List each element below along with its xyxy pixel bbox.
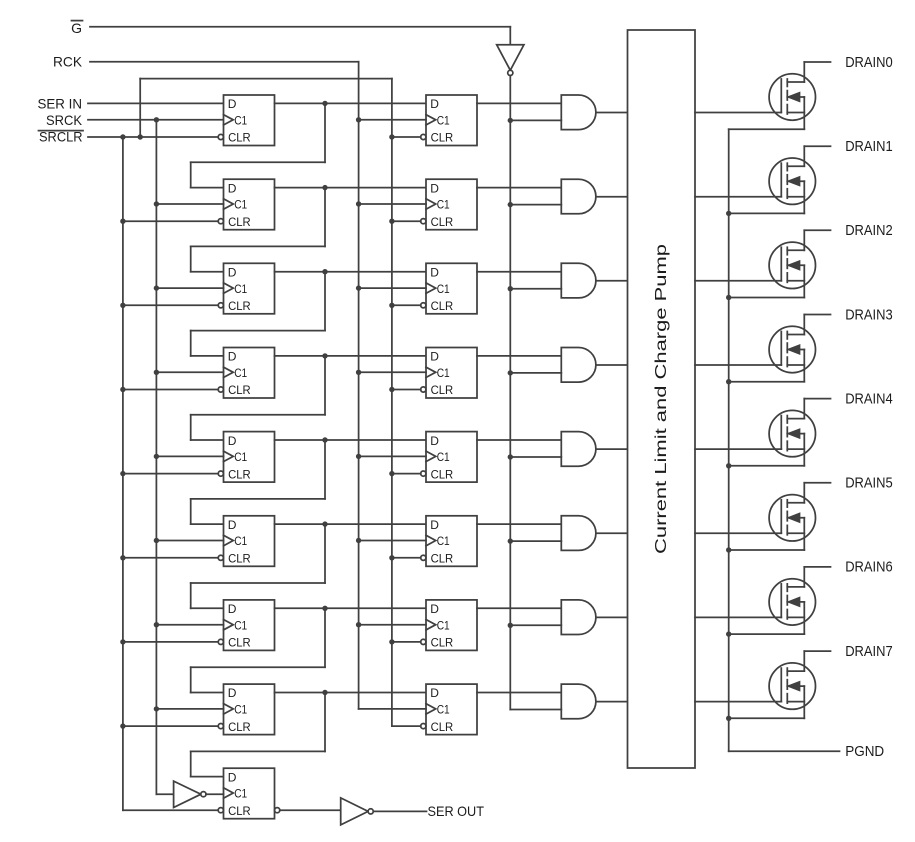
junction G-bar bus row 3	[508, 286, 513, 291]
wire to SER OUT label	[373, 810, 426, 812]
and gate A6	[561, 600, 596, 635]
junction SRCLR up-branch tap	[138, 134, 143, 139]
junction RCK bus row 1	[356, 117, 361, 122]
wire Q4 source to ground bus	[729, 465, 805, 467]
wire SRCLR up branch	[140, 79, 392, 137]
wire drain lead DRAIN4	[804, 398, 830, 400]
wire drain lead DRAIN7	[804, 650, 830, 652]
wire SRCK branch to U2 C1	[156, 203, 223, 205]
and gate A2	[561, 263, 596, 298]
wire SRCK bus vertical	[155, 120, 157, 794]
wire RCK bus vertical	[358, 62, 360, 709]
junction G-bar bus row 2	[508, 202, 513, 207]
svg-text:DRAIN1: DRAIN1	[845, 138, 893, 155]
flip-flop U9 (shift register stage 9)	[218, 768, 274, 819]
flip-flop U15 (storage register stage 6)	[421, 516, 477, 567]
wire SRCK branch to U3 C1	[156, 287, 223, 289]
wire Q2 wrap to U3 D	[191, 188, 325, 272]
wire Q1 wrap to U2 D	[191, 103, 325, 187]
flip-flop U5 (shift register stage 5)	[218, 432, 274, 483]
junction SRCLR bus row 7	[120, 639, 125, 644]
wire SRCLR branch to U17 CLR	[392, 725, 421, 727]
svg-text:SRCK: SRCK	[46, 112, 83, 128]
junction SRCLR right bus row 6	[389, 555, 394, 560]
wire G-bar branch to A2 input	[510, 288, 561, 290]
junction SRCLR bus row 4	[120, 387, 125, 392]
junction SRCK bus row 8	[154, 706, 159, 711]
junction SRCLR right bus row 5	[389, 471, 394, 476]
wire RCK branch to U16 C1	[359, 624, 426, 626]
junction SRCLR bus row 8	[120, 723, 125, 728]
wire U17 Q to AND gate A7	[477, 692, 561, 694]
svg-text:DRAIN5: DRAIN5	[845, 475, 893, 492]
junction SRCLR right bus row 2	[389, 219, 394, 224]
svg-text:DRAIN3: DRAIN3	[845, 306, 893, 323]
wire A2 output to current-limit block	[596, 280, 628, 282]
svg-text:C1: C1	[234, 703, 247, 717]
wire SRCK branch to U6 C1	[156, 540, 223, 542]
svg-text:C1: C1	[437, 534, 450, 548]
junction Q2 node	[322, 185, 327, 190]
wire Q3 source to ground bus	[729, 381, 805, 383]
junction Q1 node	[322, 101, 327, 106]
flip-flop U13 (storage register stage 4)	[421, 348, 477, 399]
wire gate drive to Q1	[695, 196, 781, 198]
and gate A5	[561, 516, 596, 551]
wire SRCLR branch to U4 CLR	[123, 389, 218, 391]
wire A4 output to current-limit block	[596, 448, 628, 450]
inverter U20 (SER OUT buffer)	[341, 798, 374, 825]
junction SRCK bus row 3	[154, 285, 159, 290]
wire gate drive to Q6	[695, 616, 781, 618]
flip-flop U8 (shift register stage 8)	[218, 684, 274, 735]
wire gate drive to Q3	[695, 364, 781, 366]
output bubble of U9	[275, 808, 280, 813]
and gate A4	[561, 432, 596, 467]
junction RCK bus row 2	[356, 201, 361, 206]
svg-text:C1: C1	[437, 198, 450, 212]
svg-text:CLR: CLR	[431, 552, 454, 566]
wire A1 output to current-limit block	[596, 196, 628, 198]
wire RCK branch to U15 C1	[359, 540, 426, 542]
wire U4 Q output to storage FF D	[275, 355, 427, 357]
transistor Q7 (power NMOS)	[769, 651, 815, 718]
svg-text:C1: C1	[234, 534, 247, 548]
svg-text:C1: C1	[437, 703, 450, 717]
net DRAIN5 label	[845, 475, 893, 492]
wire U9 to SER OUT inverter	[280, 809, 341, 811]
wire SER IN to FF1 D	[88, 102, 224, 104]
wire G-bar branch to A7 input	[510, 709, 561, 711]
wire G-bar branch to A0 input	[510, 119, 561, 121]
wire SRCK branch to U7 C1	[156, 624, 223, 626]
block U18: Current Limit and Charge Pump	[628, 30, 696, 768]
net DRAIN1 label	[845, 138, 893, 155]
junction RCK bus row 5	[356, 454, 361, 459]
wire SRCLR branch to U16 CLR	[392, 641, 421, 643]
svg-text:D: D	[430, 266, 439, 280]
svg-text:D: D	[430, 434, 439, 448]
wire RCK branch to U13 C1	[359, 371, 426, 373]
wire Q7 source to ground bus	[729, 717, 805, 719]
wire SRCK branch to U4 C1	[156, 371, 223, 373]
and gate A7	[561, 684, 596, 719]
junction G-bar bus row 1	[508, 118, 513, 123]
net G-bar input label	[71, 20, 82, 36]
wire Q6 wrap to U7 D	[191, 524, 325, 608]
wire drain lead DRAIN2	[804, 229, 830, 231]
wire RCK branch to U17 C1	[359, 708, 426, 710]
flip-flop U4 (shift register stage 4)	[218, 348, 274, 399]
junction SRCLR right bus row 3	[389, 303, 394, 308]
wire U14 Q to AND gate A4	[477, 439, 561, 441]
net SER IN input label	[38, 96, 83, 112]
junction SRCK bus row 6	[154, 538, 159, 543]
svg-text:C1: C1	[437, 114, 450, 128]
wire U3 Q output to storage FF D	[275, 271, 427, 273]
wire SRCLR branch to U6 CLR	[123, 557, 218, 559]
svg-text:CLR: CLR	[431, 467, 454, 481]
wire U16 Q to AND gate A6	[477, 607, 561, 609]
junction SRCLR right bus row 7	[389, 639, 394, 644]
net DRAIN2 label	[845, 222, 893, 239]
svg-text:Current Limit and Charge Pump: Current Limit and Charge Pump	[653, 244, 670, 554]
junction G-bar bus row 6	[508, 538, 513, 543]
wire U2 Q output to storage FF D	[275, 187, 427, 189]
wire SRCLR branch to U3 CLR	[123, 304, 218, 306]
net SRCK input label	[46, 112, 83, 128]
inverter U10 (G-bar)	[497, 45, 524, 76]
svg-text:CLR: CLR	[431, 215, 454, 229]
svg-text:CLR: CLR	[431, 131, 454, 145]
and gate A1	[561, 179, 596, 214]
wire U7 Q output to storage FF D	[275, 607, 427, 609]
net PGND label	[845, 743, 884, 760]
wire G-bar bus vertical	[509, 76, 511, 710]
wire RCK branch to U10 C1	[359, 119, 426, 121]
junction SRCLR bus row 6	[120, 555, 125, 560]
wire G-bar horizontal	[90, 26, 510, 28]
junction source bus row 1	[726, 211, 731, 216]
svg-text:D: D	[228, 518, 237, 532]
svg-text:C1: C1	[437, 282, 450, 296]
svg-text:CLR: CLR	[228, 383, 251, 397]
wire SRCLR branch to U14 CLR	[392, 473, 421, 475]
wire G-bar branch to A1 input	[510, 204, 561, 206]
svg-text:D: D	[228, 266, 237, 280]
svg-text:SER OUT: SER OUT	[428, 803, 485, 819]
wire gate drive to Q0	[695, 112, 781, 114]
svg-text:CLR: CLR	[228, 467, 251, 481]
svg-text:C1: C1	[234, 282, 247, 296]
junction SRCLR bus row 5	[120, 471, 125, 476]
wire drain lead DRAIN0	[804, 61, 830, 63]
wire SRCLR branch to U12 CLR	[392, 304, 421, 306]
transistor Q0 (power NMOS)	[769, 62, 815, 129]
flip-flop U17 (storage register stage 8)	[421, 684, 477, 735]
wire drain lead DRAIN1	[804, 145, 830, 147]
wire drain lead DRAIN6	[804, 566, 830, 568]
wire G-bar branch to A5 input	[510, 540, 561, 542]
transistor Q6 (power NMOS)	[769, 567, 815, 634]
svg-text:C1: C1	[234, 114, 247, 128]
svg-text:RCK: RCK	[53, 54, 83, 70]
junction SRCK bus row 7	[154, 622, 159, 627]
junction SRCK bus row 4	[154, 370, 159, 375]
junction SRCK bus row 5	[154, 454, 159, 459]
junction source bus row 5	[726, 547, 731, 552]
svg-text:C1: C1	[437, 366, 450, 380]
junction Q8 node	[322, 690, 327, 695]
wire U8 Q output to storage FF D	[275, 692, 427, 694]
svg-text:C1: C1	[437, 618, 450, 632]
flip-flop U3 (shift register stage 3)	[218, 263, 274, 314]
wire U1 Q output to storage FF D	[275, 102, 427, 104]
svg-text:D: D	[228, 602, 237, 616]
wire U15 Q to AND gate A5	[477, 523, 561, 525]
svg-text:D: D	[228, 686, 237, 700]
wire Q6 source to ground bus	[729, 633, 805, 635]
wire Q8 wrap to U9 D	[191, 693, 325, 777]
svg-text:CLR: CLR	[228, 636, 251, 650]
wire A5 output to current-limit block	[596, 532, 628, 534]
svg-text:C1: C1	[234, 198, 247, 212]
svg-text:D: D	[228, 350, 237, 364]
and gate A3	[561, 348, 596, 383]
flip-flop U2 (shift register stage 2)	[218, 179, 274, 230]
wire SRCLR to FF1 CLR	[88, 136, 218, 138]
svg-text:SER IN: SER IN	[38, 96, 83, 112]
wire A7 output to current-limit block	[596, 701, 628, 703]
wire SRCLR branch to U10 CLR	[392, 136, 421, 138]
wire U6 Q output to storage FF D	[275, 523, 427, 525]
junction source bus row 2	[726, 295, 731, 300]
junction SRCLR bus row 2	[120, 219, 125, 224]
transistor Q4 (power NMOS)	[769, 399, 815, 466]
svg-text:D: D	[228, 770, 237, 784]
svg-text:D: D	[228, 97, 237, 111]
wire A0 output to current-limit block	[596, 112, 628, 114]
wire Q5 source to ground bus	[729, 549, 805, 551]
net DRAIN0 label	[845, 54, 893, 71]
net DRAIN7 label	[845, 643, 893, 660]
junction SRCLR right bus row 4	[389, 387, 394, 392]
transistor Q3 (power NMOS)	[769, 315, 815, 382]
wire SRCLR branch to U7 CLR	[123, 641, 218, 643]
svg-text:DRAIN6: DRAIN6	[845, 559, 893, 576]
svg-text:PGND: PGND	[845, 743, 884, 760]
wire Q1 source to ground bus	[729, 212, 805, 214]
transistor Q2 (power NMOS)	[769, 230, 815, 297]
junction Q3 node	[322, 269, 327, 274]
transistor Q5 (power NMOS)	[769, 483, 815, 550]
svg-text:C1: C1	[234, 618, 247, 632]
wire Q4 wrap to U5 D	[191, 356, 325, 440]
junction Q4 node	[322, 353, 327, 358]
wire Q0 source to ground bus	[729, 128, 805, 130]
net RCK input label	[53, 54, 83, 70]
junction source bus row 3	[726, 379, 731, 384]
junction RCK bus row 4	[356, 370, 361, 375]
wire A3 output to current-limit block	[596, 364, 628, 366]
junction source bus row 4	[726, 463, 731, 468]
svg-text:CLR: CLR	[431, 636, 454, 650]
wire U5 Q output to storage FF D	[275, 439, 427, 441]
svg-text:D: D	[228, 181, 237, 195]
wire SRCLR branch to U13 CLR	[392, 389, 421, 391]
net SER OUT label	[428, 803, 485, 819]
flip-flop U7 (shift register stage 7)	[218, 600, 274, 651]
wire Q3 wrap to U4 D	[191, 272, 325, 356]
wire G-bar down to inverter	[509, 27, 511, 45]
svg-text:C1: C1	[234, 450, 247, 464]
wire SRCK bus corner to clock inverter	[156, 793, 173, 795]
wire SRCK branch to U8 C1	[156, 708, 223, 710]
svg-text:CLR: CLR	[228, 215, 251, 229]
wire gate drive to Q2	[695, 280, 781, 282]
wire SRCK to FF1 C1	[88, 119, 224, 121]
wire U11 Q to AND gate A1	[477, 187, 561, 189]
flip-flop U12 (storage register stage 3)	[421, 263, 477, 314]
svg-text:C1: C1	[234, 787, 247, 801]
wire SRCLR branch to U11 CLR	[392, 220, 421, 222]
wire RCK branch to U11 C1	[359, 203, 426, 205]
net DRAIN3 label	[845, 306, 893, 323]
svg-text:D: D	[430, 518, 439, 532]
svg-text:C1: C1	[437, 450, 450, 464]
flip-flop U1 (shift register stage 1)	[218, 95, 274, 146]
junction G-bar bus row 7	[508, 623, 513, 628]
svg-text:DRAIN0: DRAIN0	[845, 54, 893, 71]
net DRAIN6 label	[845, 559, 893, 576]
junction G-bar bus row 4	[508, 370, 513, 375]
svg-text:C1: C1	[234, 366, 247, 380]
wire G-bar branch to A4 input	[510, 456, 561, 458]
svg-text:CLR: CLR	[228, 804, 251, 818]
wire Q2 source to ground bus	[729, 297, 805, 299]
wire SRCK branch to U5 C1	[156, 455, 223, 457]
and gate A0	[561, 95, 596, 130]
svg-text:D: D	[430, 686, 439, 700]
svg-text:DRAIN7: DRAIN7	[845, 643, 893, 660]
wire PGND horizontal	[729, 750, 840, 752]
svg-text:CLR: CLR	[431, 720, 454, 734]
net DRAIN4 label	[845, 390, 893, 407]
svg-text:DRAIN2: DRAIN2	[845, 222, 893, 239]
wire Q7 wrap to U8 D	[191, 608, 325, 692]
net SRCLR input label	[39, 128, 84, 144]
svg-text:DRAIN4: DRAIN4	[845, 390, 893, 407]
junction SRCLR right bus row 1	[389, 134, 394, 139]
junction SRCLR left bus tap	[120, 134, 125, 139]
junction source bus row 7	[726, 716, 731, 721]
wire SRCLR branch to U5 CLR	[123, 473, 218, 475]
junction SRCK bus row 2	[154, 201, 159, 206]
wire gate drive to Q5	[695, 532, 781, 534]
wire G-bar branch to A6 input	[510, 624, 561, 626]
flip-flop U16 (storage register stage 7)	[421, 600, 477, 651]
wire RCK horizontal	[90, 61, 359, 63]
svg-text:CLR: CLR	[228, 131, 251, 145]
svg-text:D: D	[430, 602, 439, 616]
svg-text:G: G	[71, 20, 82, 36]
wire SRCLR bottom run to FF9 CLR	[123, 809, 218, 811]
transistor Q1 (power NMOS)	[769, 146, 815, 213]
junction source bus row 6	[726, 631, 731, 636]
svg-text:CLR: CLR	[228, 552, 251, 566]
svg-text:D: D	[430, 97, 439, 111]
svg-text:D: D	[228, 434, 237, 448]
junction Q7 node	[322, 606, 327, 611]
wire U10 Q to AND gate A0	[477, 102, 561, 104]
svg-text:D: D	[430, 350, 439, 364]
svg-text:CLR: CLR	[431, 299, 454, 313]
junction Q6 node	[322, 521, 327, 526]
wire A6 output to current-limit block	[596, 616, 628, 618]
inverter U19 (SRCK clock inverter)	[174, 781, 206, 807]
wire SRCLR right bus vertical	[391, 79, 393, 727]
flip-flop U14 (storage register stage 5)	[421, 432, 477, 483]
wire U13 Q to AND gate A3	[477, 355, 561, 357]
wire SRCLR left bus vertical	[122, 137, 124, 810]
flip-flop U10 (storage register stage 1)	[421, 95, 477, 146]
junction SRCLR bus row 3	[120, 303, 125, 308]
wire drain lead DRAIN5	[804, 482, 830, 484]
wire RCK branch to U12 C1	[359, 287, 426, 289]
wire SRCLR branch to U8 CLR	[123, 725, 218, 727]
svg-text:CLR: CLR	[431, 383, 454, 397]
junction G-bar bus row 5	[508, 454, 513, 459]
wire gate drive to Q4	[695, 448, 781, 450]
junction RCK bus row 7	[356, 622, 361, 627]
wire G-bar branch to A3 input	[510, 372, 561, 374]
junction RCK bus row 3	[356, 285, 361, 290]
wire SRCLR branch to U15 CLR	[392, 557, 421, 559]
wire gate drive to Q7	[695, 701, 781, 703]
wire clock inverter to U9 C1	[206, 793, 224, 795]
svg-text:D: D	[430, 181, 439, 195]
wire source/ground bus vertical	[728, 129, 730, 751]
wire SRCLR branch to U2 CLR	[123, 220, 218, 222]
wire drain lead DRAIN3	[804, 314, 830, 316]
wire U12 Q to AND gate A2	[477, 271, 561, 273]
wire Q5 wrap to U6 D	[191, 440, 325, 524]
junction Q5 node	[322, 437, 327, 442]
svg-text:CLR: CLR	[228, 299, 251, 313]
junction SRCK bus tap	[154, 117, 159, 122]
svg-text:CLR: CLR	[228, 720, 251, 734]
junction RCK bus row 6	[356, 538, 361, 543]
flip-flop U11 (storage register stage 2)	[421, 179, 477, 230]
wire RCK branch to U14 C1	[359, 455, 426, 457]
flip-flop U6 (shift register stage 6)	[218, 516, 274, 567]
